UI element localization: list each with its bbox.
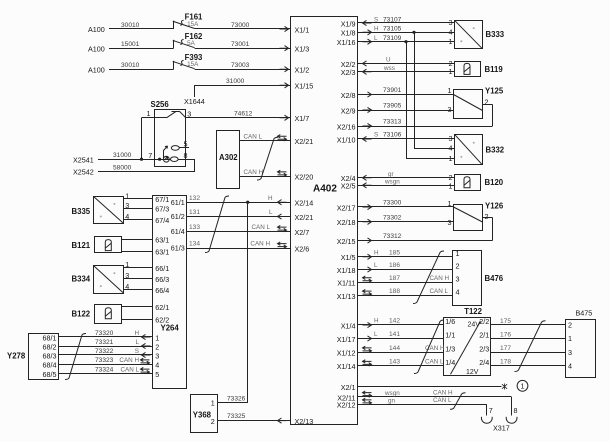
svg-text:2/4: 2/4 bbox=[479, 358, 489, 367]
wire 73313 X2/16 to Y125/2 bbox=[358, 105, 493, 129]
svg-text:66/3: 66/3 bbox=[155, 275, 169, 284]
svg-text:131: 131 bbox=[189, 209, 200, 216]
svg-text:A100: A100 bbox=[88, 65, 105, 74]
svg-text:CAN H: CAN H bbox=[433, 390, 453, 397]
sensor B334 bbox=[72, 265, 124, 293]
svg-text:188: 188 bbox=[389, 288, 400, 295]
wire CAN L vertical (B333 to B332) bbox=[406, 42, 408, 159]
svg-text:L: L bbox=[269, 209, 273, 216]
wire 177 T122 to B475/3 bbox=[491, 345, 566, 352]
wire 176 T122 to B475/1 bbox=[491, 331, 566, 338]
connector X1644 stub bbox=[194, 85, 196, 97]
svg-text:X1/16: X1/16 bbox=[337, 38, 356, 47]
fuse F393 15A bbox=[173, 60, 195, 69]
wire wsgn X2/5 to B120/1 bbox=[358, 178, 455, 188]
svg-text:134: 134 bbox=[189, 241, 200, 248]
svg-text:1: 1 bbox=[147, 109, 151, 118]
svg-text:30010: 30010 bbox=[121, 22, 140, 29]
wire 187 (CAN H) X1/11 to B476/3 bbox=[358, 275, 453, 283]
sensor B332 bbox=[455, 134, 505, 164]
svg-text:3: 3 bbox=[448, 105, 452, 114]
wire 73905 X2/9 to Y125/3 bbox=[358, 103, 454, 113]
svg-text:2: 2 bbox=[568, 321, 572, 330]
svg-text:1: 1 bbox=[456, 249, 460, 258]
valve Y368 bbox=[191, 395, 218, 433]
wire 31000 to X1/15 bbox=[194, 78, 290, 88]
wire CAN H vertical (B333 to B332) bbox=[414, 32, 416, 148]
wire 73322 (S) Y278 to Y264 bbox=[58, 348, 152, 358]
svg-text:73313: 73313 bbox=[383, 119, 402, 126]
svg-text:B475: B475 bbox=[576, 308, 593, 317]
svg-text:141: 141 bbox=[389, 331, 400, 338]
svg-text:8: 8 bbox=[184, 151, 188, 160]
svg-text:wsgn: wsgn bbox=[384, 390, 400, 397]
svg-text:X1/5: X1/5 bbox=[341, 253, 356, 262]
svg-text:B332: B332 bbox=[486, 145, 505, 154]
svg-text:67/3: 67/3 bbox=[155, 205, 169, 214]
svg-text:X1644: X1644 bbox=[184, 97, 205, 106]
svg-text:X2/16: X2/16 bbox=[337, 122, 356, 131]
wire 73003 bbox=[195, 62, 291, 72]
svg-text:Y126: Y126 bbox=[485, 202, 504, 211]
valve Y126 bbox=[454, 202, 504, 231]
svg-text:Y264: Y264 bbox=[161, 323, 180, 332]
svg-text:X2/14: X2/14 bbox=[295, 199, 314, 208]
S256 lamp row pin 8 bbox=[155, 156, 195, 162]
wire CAN H to B332/4 bbox=[414, 148, 455, 150]
control unit B476 bbox=[453, 251, 504, 306]
svg-text:T122: T122 bbox=[464, 307, 482, 316]
svg-text:73003: 73003 bbox=[231, 62, 250, 69]
svg-text:S256: S256 bbox=[151, 100, 170, 109]
sensor B120 bbox=[455, 175, 504, 191]
svg-text:X2541: X2541 bbox=[73, 155, 94, 164]
svg-text:73107: 73107 bbox=[383, 16, 402, 23]
svg-text:73000: 73000 bbox=[231, 22, 250, 29]
svg-text:186: 186 bbox=[389, 262, 400, 269]
wire 143 (CAN L) X1/14 to T122 1/4 bbox=[358, 359, 444, 367]
twisted pair slash X317 bus bbox=[450, 393, 466, 410]
valve Y125 bbox=[454, 87, 504, 119]
svg-text:61/2: 61/2 bbox=[171, 212, 185, 221]
svg-text:67/4: 67/4 bbox=[155, 216, 169, 225]
wire 73000 bbox=[195, 22, 291, 32]
battery B475 bbox=[566, 308, 596, 377]
svg-text:CAN H: CAN H bbox=[244, 169, 264, 176]
svg-text:X1/7: X1/7 bbox=[295, 114, 310, 123]
svg-text:4: 4 bbox=[155, 361, 159, 370]
wire gn CAN L X2/12 to X317/7 bbox=[358, 397, 487, 416]
svg-text:Y368: Y368 bbox=[193, 410, 212, 419]
svg-text:H: H bbox=[374, 318, 379, 325]
wire 186 (L) X1/18 to B476/2 bbox=[358, 262, 453, 272]
svg-text:X2/18: X2/18 bbox=[337, 218, 356, 227]
svg-text:73325: 73325 bbox=[227, 413, 246, 420]
svg-text:B335: B335 bbox=[72, 207, 91, 216]
fuse F161 15A bbox=[173, 20, 195, 29]
svg-text:63/1: 63/1 bbox=[155, 248, 169, 257]
svg-text:68/2: 68/2 bbox=[43, 342, 57, 351]
wire CAN H (A302 to X2/20) bbox=[240, 169, 291, 177]
wire 134 (CAN H) Y264 61/3 to X2/6 bbox=[187, 241, 291, 249]
wire 73109 (L) X1/16 to B333/1 bbox=[358, 35, 455, 44]
svg-text:15A: 15A bbox=[187, 61, 199, 68]
svg-text:74612: 74612 bbox=[234, 111, 253, 118]
wire 58000 bbox=[98, 164, 195, 171]
svg-text:1: 1 bbox=[448, 86, 452, 95]
wire 15001 bbox=[109, 41, 174, 49]
sensor B119 bbox=[455, 62, 504, 77]
svg-text:1: 1 bbox=[211, 399, 215, 408]
svg-text:143: 143 bbox=[389, 359, 400, 366]
svg-text:B120: B120 bbox=[485, 178, 504, 187]
svg-text:67/1: 67/1 bbox=[155, 195, 169, 204]
svg-text:L: L bbox=[374, 262, 378, 269]
twisted pair slash A302 bbox=[257, 137, 278, 180]
svg-text:H: H bbox=[134, 330, 139, 337]
svg-text:8: 8 bbox=[514, 406, 518, 415]
wire CAN L (A302 to X2/21) bbox=[240, 133, 291, 141]
wire 30010 bbox=[109, 22, 174, 29]
svg-text:X2/1: X2/1 bbox=[341, 383, 356, 392]
svg-text:CAN L: CAN L bbox=[430, 288, 449, 295]
svg-text:Y278: Y278 bbox=[7, 351, 26, 360]
svg-text:X1/15: X1/15 bbox=[295, 82, 314, 91]
svg-text:A100: A100 bbox=[88, 25, 105, 34]
svg-text:wsgn: wsgn bbox=[384, 178, 400, 185]
twisted pair slash T122 input bus bbox=[414, 320, 444, 374]
wire B335/1 to 67/1 bbox=[123, 198, 152, 200]
svg-text:2/2: 2/2 bbox=[479, 317, 489, 326]
svg-text:31000: 31000 bbox=[113, 152, 132, 159]
svg-text:X1/9: X1/9 bbox=[341, 19, 356, 28]
wire 73300 X2/17 to Y126/1 bbox=[358, 200, 454, 210]
svg-text:X2/21: X2/21 bbox=[295, 137, 314, 146]
svg-text:A302: A302 bbox=[219, 153, 238, 162]
connector X317 pin 7 bbox=[481, 406, 492, 423]
svg-text:H: H bbox=[374, 26, 379, 33]
svg-text:15001: 15001 bbox=[121, 41, 140, 48]
svg-text:X317: X317 bbox=[493, 424, 510, 433]
svg-text:X1/3: X1/3 bbox=[295, 45, 310, 54]
svg-text:X2/20: X2/20 bbox=[295, 173, 314, 182]
svg-text:73905: 73905 bbox=[383, 103, 402, 110]
svg-text:B333: B333 bbox=[486, 30, 505, 39]
svg-text:3: 3 bbox=[456, 274, 460, 283]
wire 141 (L) X1/17 to T122 1/1 bbox=[358, 331, 444, 341]
svg-text:2/1: 2/1 bbox=[479, 331, 489, 340]
svg-text:73322: 73322 bbox=[95, 348, 114, 355]
svg-text:X1/17: X1/17 bbox=[337, 335, 356, 344]
wire 175 T122 to B475/2 bbox=[491, 318, 566, 325]
wire 73105 (H) X1/8 to B333/4 bbox=[358, 26, 455, 35]
svg-text:73109: 73109 bbox=[383, 35, 402, 42]
svg-text:X1/10: X1/10 bbox=[337, 135, 356, 144]
wire 73901 X2/8 to Y125/1 bbox=[358, 87, 454, 97]
svg-text:S: S bbox=[374, 16, 378, 23]
wire 30010 bbox=[109, 62, 174, 70]
junction CAN H drop bbox=[412, 31, 415, 34]
svg-text:2/3: 2/3 bbox=[479, 345, 489, 354]
junction wire 132 / 73326 bbox=[246, 201, 249, 204]
svg-text:X1/14: X1/14 bbox=[337, 362, 356, 371]
wire B335/3 to 67/3 bbox=[123, 208, 152, 210]
wire 73325 Y368/2 to X2/13 bbox=[217, 413, 291, 423]
svg-text:61/1: 61/1 bbox=[171, 198, 185, 207]
svg-text:gn: gn bbox=[388, 397, 396, 404]
wire 132 (H) Y264 61/1 to X2/14 bbox=[187, 195, 291, 205]
svg-text:CAN L: CAN L bbox=[425, 359, 444, 366]
ECU A402 bbox=[291, 17, 358, 425]
svg-text:177: 177 bbox=[500, 345, 511, 352]
svg-text:178: 178 bbox=[500, 359, 511, 366]
svg-text:73312: 73312 bbox=[383, 233, 402, 240]
wire 131 (L) Y264 61/2 to X2/21 bbox=[187, 209, 291, 219]
S256 lamp row pin 5 bbox=[164, 146, 190, 160]
svg-text:73323: 73323 bbox=[95, 357, 114, 364]
wire B334/4 to 66/4 bbox=[123, 289, 152, 291]
junction CAN L drop bbox=[404, 40, 407, 43]
svg-text:1/1: 1/1 bbox=[445, 331, 455, 340]
wire 74612 to X1/7 bbox=[185, 111, 290, 121]
wire B121 to 63/1 bbox=[122, 239, 153, 241]
svg-text:L: L bbox=[374, 331, 378, 338]
svg-text:66/4: 66/4 bbox=[155, 286, 169, 295]
svg-text:68/3: 68/3 bbox=[43, 351, 57, 360]
svg-text:3: 3 bbox=[448, 218, 452, 227]
svg-text:A402: A402 bbox=[313, 183, 337, 194]
svg-text:X2/12: X2/12 bbox=[337, 401, 356, 410]
svg-text:gr: gr bbox=[388, 171, 394, 178]
svg-text:CAN L: CAN L bbox=[251, 224, 270, 231]
svg-text:66/1: 66/1 bbox=[155, 264, 169, 273]
wire 73323 (CAN H) Y278 to Y264 bbox=[58, 357, 152, 365]
wire 144 (CAN H) X1/12 to T122 1/3 bbox=[358, 345, 445, 353]
svg-text:Y125: Y125 bbox=[485, 87, 504, 96]
wire gr X2/4 to B120/2 bbox=[358, 171, 455, 181]
svg-text:2: 2 bbox=[485, 98, 489, 107]
twisted pair slash Y264 bus bbox=[205, 196, 229, 253]
sensor B121 bbox=[72, 237, 122, 253]
svg-text:73321: 73321 bbox=[95, 339, 114, 346]
svg-text:1/3: 1/3 bbox=[445, 345, 455, 354]
svg-text:2: 2 bbox=[485, 212, 489, 221]
svg-text:176: 176 bbox=[500, 331, 511, 338]
svg-text:73326: 73326 bbox=[227, 395, 246, 402]
svg-text:X1/8: X1/8 bbox=[341, 29, 356, 38]
svg-text:63/1: 63/1 bbox=[155, 235, 169, 244]
wire 188 (CAN L) X1/13 to B476/4 bbox=[358, 288, 453, 296]
svg-text:62/1: 62/1 bbox=[155, 303, 169, 312]
svg-text:5: 5 bbox=[184, 139, 188, 148]
svg-text:73300: 73300 bbox=[383, 200, 402, 207]
svg-text:B122: B122 bbox=[72, 309, 91, 318]
wire B121 to 63/2 bbox=[122, 251, 153, 253]
twisted pair slash T122 output bus bbox=[515, 321, 546, 372]
wire X2/1 supply bbox=[358, 384, 507, 390]
svg-text:4: 4 bbox=[456, 288, 460, 297]
svg-text:U: U bbox=[386, 57, 391, 64]
svg-text:CAN H: CAN H bbox=[430, 275, 450, 282]
svg-text:CAN L: CAN L bbox=[433, 397, 452, 404]
svg-text:B476: B476 bbox=[485, 274, 504, 283]
wire 73107 (S) X1/9 to B333/3 bbox=[358, 16, 455, 25]
svg-text:175: 175 bbox=[500, 318, 511, 325]
svg-text:7: 7 bbox=[489, 406, 493, 415]
svg-text:2: 2 bbox=[456, 262, 460, 271]
svg-text:X2/17: X2/17 bbox=[337, 203, 356, 212]
svg-text:5A: 5A bbox=[187, 40, 196, 47]
wire 185 (H) X1/5 to B476/1 bbox=[358, 250, 453, 260]
wire wsgn CAN H X2/11 to X317/8 bbox=[358, 390, 512, 416]
svg-text:wss: wss bbox=[383, 65, 395, 72]
wire 178 T122 to B475/4 bbox=[491, 359, 566, 366]
svg-text:X2/8: X2/8 bbox=[341, 91, 356, 100]
wire wss X2/3 to B119/1 bbox=[358, 65, 455, 74]
svg-text:62/2: 62/2 bbox=[155, 316, 169, 325]
svg-text:2: 2 bbox=[155, 342, 159, 351]
control unit A302 bbox=[217, 131, 240, 189]
svg-text:H: H bbox=[374, 250, 379, 257]
svg-text:3: 3 bbox=[568, 348, 572, 357]
svg-text:X2/5: X2/5 bbox=[341, 182, 356, 191]
connector X317 pin 8 bbox=[506, 406, 517, 423]
svg-text:61/4: 61/4 bbox=[171, 227, 185, 236]
svg-text:132: 132 bbox=[189, 195, 200, 202]
svg-text:S: S bbox=[374, 132, 378, 139]
svg-text:1: 1 bbox=[155, 333, 159, 342]
svg-text:X1/1: X1/1 bbox=[295, 25, 310, 34]
svg-text:187: 187 bbox=[389, 275, 400, 282]
svg-text:30010: 30010 bbox=[121, 62, 140, 69]
wire 142 (H) X1/4 to T122 1/6 bbox=[358, 318, 444, 328]
svg-text:X2/9: X2/9 bbox=[341, 106, 356, 115]
svg-text:X2/13: X2/13 bbox=[295, 417, 314, 426]
svg-text:X2/6: X2/6 bbox=[295, 244, 310, 253]
valve block Y264 bbox=[153, 196, 187, 389]
svg-text:B121: B121 bbox=[72, 241, 91, 250]
fuse F162 5A bbox=[173, 39, 195, 48]
svg-text:X1/13: X1/13 bbox=[337, 292, 356, 301]
svg-text:5: 5 bbox=[155, 370, 159, 379]
svg-text:142: 142 bbox=[389, 318, 400, 325]
wire 73326 Y368/1 to H net bbox=[217, 202, 248, 403]
svg-text:X1/4: X1/4 bbox=[341, 321, 356, 330]
svg-text:73320: 73320 bbox=[95, 330, 114, 337]
wire 73321 (L) Y278 to Y264 bbox=[58, 339, 152, 349]
wire B335/4 to 67/4 bbox=[123, 219, 152, 221]
svg-text:73324: 73324 bbox=[95, 366, 114, 373]
svg-text:CAN H: CAN H bbox=[119, 357, 139, 364]
wire 73320 (H) Y278 to Y264 bbox=[58, 330, 152, 340]
voltage converter T122 bbox=[444, 307, 491, 376]
S256 switch contact blade bbox=[155, 111, 186, 117]
svg-text:1: 1 bbox=[521, 382, 525, 391]
wire B334/1 to 66/1 bbox=[123, 267, 152, 269]
svg-text:68/4: 68/4 bbox=[43, 361, 57, 370]
wire U X2/2 to B119/2 bbox=[358, 57, 455, 67]
svg-text:S: S bbox=[135, 348, 139, 355]
svg-text:61/3: 61/3 bbox=[171, 244, 185, 253]
wire CAN L to B332/1 bbox=[406, 158, 455, 160]
svg-text:X2/7: X2/7 bbox=[295, 228, 310, 237]
svg-text:H: H bbox=[268, 195, 273, 202]
twisted pair slash Y278 bus bbox=[65, 334, 86, 380]
wire B334/3 to 66/3 bbox=[123, 278, 152, 280]
sensor B122 bbox=[72, 305, 122, 324]
svg-text:31000: 31000 bbox=[226, 78, 245, 85]
junction S256 internal bbox=[158, 158, 161, 161]
svg-text:CAN L: CAN L bbox=[120, 366, 139, 373]
svg-text:144: 144 bbox=[389, 345, 400, 352]
wire pin8 down to 58000 bbox=[194, 159, 196, 171]
wire 73106 (S) X1/10 to B332/3 bbox=[358, 132, 455, 142]
svg-text:4: 4 bbox=[568, 361, 572, 370]
wire 73302 X2/22 to Y126/3 bbox=[358, 215, 454, 225]
svg-text:X2/21: X2/21 bbox=[295, 213, 314, 222]
svg-text:B119: B119 bbox=[485, 65, 504, 74]
svg-text:68/5: 68/5 bbox=[43, 370, 57, 379]
valve block Y278 bbox=[7, 334, 59, 380]
wire S256 pin1 to X2541 node bbox=[142, 118, 155, 160]
svg-text:X2542: X2542 bbox=[73, 168, 94, 177]
sensor B333 bbox=[455, 20, 505, 48]
svg-text:12V: 12V bbox=[466, 369, 479, 376]
svg-text:L: L bbox=[374, 35, 378, 42]
svg-text:X1/11: X1/11 bbox=[337, 279, 355, 288]
svg-text:X2/15: X2/15 bbox=[337, 237, 356, 246]
twisted pair slash B476 bus bbox=[413, 251, 444, 304]
svg-text:X1/12: X1/12 bbox=[337, 349, 356, 358]
wire 133 (CAN L) Y264 61/4 to X2/7 bbox=[187, 224, 291, 232]
svg-text:73001: 73001 bbox=[231, 41, 250, 48]
wire B122 to 62/1 bbox=[122, 306, 153, 308]
sensor B335 bbox=[72, 196, 124, 223]
svg-text:73105: 73105 bbox=[383, 26, 402, 33]
wire 73312 X2/18 to Y126/2 bbox=[358, 218, 493, 244]
svg-text:7: 7 bbox=[148, 151, 152, 160]
svg-text:X1/18: X1/18 bbox=[337, 266, 356, 275]
wire 73001 bbox=[195, 41, 291, 51]
svg-text:15A: 15A bbox=[187, 21, 199, 28]
svg-text:X2/3: X2/3 bbox=[341, 68, 356, 77]
svg-text:58000: 58000 bbox=[113, 164, 132, 171]
svg-text:1/4: 1/4 bbox=[445, 358, 455, 367]
svg-text:A100: A100 bbox=[88, 44, 105, 53]
reference circle 1 bbox=[517, 380, 528, 391]
svg-text:1/6: 1/6 bbox=[445, 317, 455, 326]
svg-text:B334: B334 bbox=[72, 275, 91, 284]
svg-text:CAN H: CAN H bbox=[250, 241, 270, 248]
wire B122 to 62/2 bbox=[122, 319, 153, 321]
junction at S256 pin1 drop bbox=[140, 158, 143, 161]
svg-text:X1/2: X1/2 bbox=[295, 66, 310, 75]
svg-text:L: L bbox=[135, 339, 139, 346]
wire 31000 (X2541 to S256 pin7) bbox=[98, 152, 155, 160]
switch S256 box bbox=[151, 100, 186, 167]
svg-text:68/1: 68/1 bbox=[43, 333, 57, 342]
svg-text:73106: 73106 bbox=[383, 132, 402, 139]
wire 73324 (CAN L) Y278 to Y264 bbox=[58, 366, 152, 374]
svg-text:2: 2 bbox=[211, 417, 215, 426]
svg-text:1: 1 bbox=[568, 334, 572, 343]
svg-text:185: 185 bbox=[389, 250, 400, 257]
svg-text:133: 133 bbox=[189, 224, 200, 231]
svg-text:CAN L: CAN L bbox=[244, 133, 263, 140]
svg-text:73302: 73302 bbox=[383, 215, 402, 222]
svg-text:73901: 73901 bbox=[383, 87, 402, 94]
svg-text:3: 3 bbox=[155, 351, 159, 360]
